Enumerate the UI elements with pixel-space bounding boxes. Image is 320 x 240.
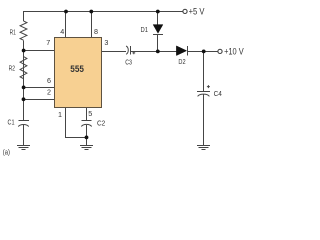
- svg-text:7: 7: [46, 38, 50, 47]
- svg-text:3: 3: [104, 38, 108, 47]
- svg-text:C3: C3: [125, 58, 132, 67]
- svg-text:8: 8: [94, 27, 98, 36]
- svg-text:(a): (a): [3, 150, 10, 157]
- svg-text:5: 5: [88, 109, 92, 118]
- svg-text:R1: R1: [10, 27, 16, 36]
- svg-text:2: 2: [47, 87, 51, 96]
- svg-text:1: 1: [58, 110, 62, 119]
- svg-text:+10 V: +10 V: [224, 47, 244, 57]
- svg-text:C1: C1: [8, 117, 15, 126]
- svg-text:C2: C2: [97, 118, 105, 127]
- svg-text:C4: C4: [214, 89, 222, 98]
- svg-text:4: 4: [60, 27, 64, 36]
- svg-text:R2: R2: [9, 63, 15, 72]
- svg-text:+5 V: +5 V: [189, 6, 205, 16]
- svg-text:D2: D2: [178, 57, 185, 66]
- svg-text:555: 555: [70, 64, 84, 74]
- svg-text:D1: D1: [141, 25, 149, 34]
- svg-text:6: 6: [47, 76, 51, 85]
